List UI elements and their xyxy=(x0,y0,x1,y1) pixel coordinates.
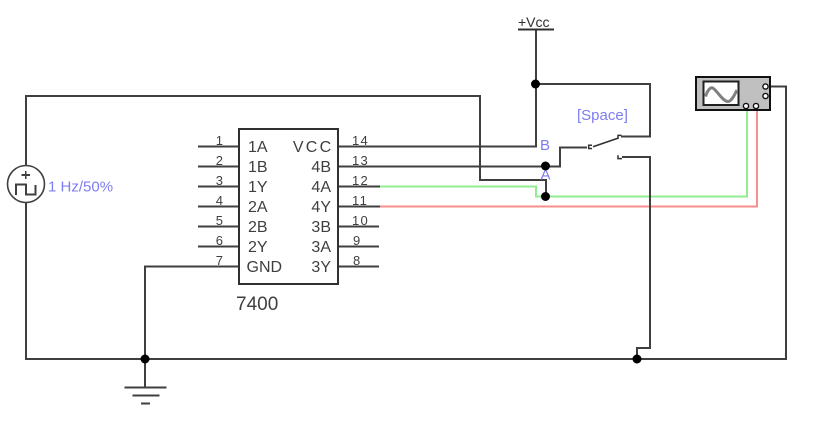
wire short vertical into lower junction xyxy=(545,179,547,197)
wire pin7 vertical to ground junction xyxy=(144,266,146,389)
svg-text:9: 9 xyxy=(353,233,362,248)
svg-text:3: 3 xyxy=(216,173,223,188)
svg-text:2A: 2A xyxy=(248,199,268,216)
clock source pulse waveform xyxy=(16,185,36,196)
wire pin7 horizontal xyxy=(145,266,239,268)
svg-text:4B: 4B xyxy=(311,159,331,176)
oscilloscope terminal bottom B xyxy=(753,103,758,108)
svg-text:3B: 3B xyxy=(311,219,331,236)
pin numbers right xyxy=(352,133,369,268)
oscilloscope terminal right 1 xyxy=(763,84,768,89)
wire pin1 stub xyxy=(198,146,239,148)
ground symbol xyxy=(125,388,167,404)
svg-text:13: 13 xyxy=(352,153,369,168)
IC left pin labels xyxy=(247,139,283,276)
svg-text:B: B xyxy=(540,137,550,154)
svg-text:4Y: 4Y xyxy=(311,199,331,216)
wire clock top vertical xyxy=(25,96,27,165)
svg-text:[Space]: [Space] xyxy=(577,107,628,124)
wire horizontal to node A drop xyxy=(479,179,546,181)
wire jog down to bottom junction xyxy=(636,347,638,359)
svg-text:1 Hz/50%: 1 Hz/50% xyxy=(48,179,113,196)
svg-text:+Vcc: +Vcc xyxy=(518,14,550,30)
wire pin14 horizontal xyxy=(338,146,537,148)
wire switch top throw to right xyxy=(621,136,650,138)
svg-text:4: 4 xyxy=(216,193,223,208)
wire pin5 stub xyxy=(198,226,239,228)
svg-text:7400: 7400 xyxy=(236,294,278,315)
oscilloscope terminal bottom A xyxy=(743,103,748,108)
IC right pin labels xyxy=(293,139,334,276)
svg-text:1A: 1A xyxy=(248,139,268,156)
wire mid vertical x480 xyxy=(479,95,481,180)
wire green channel A xyxy=(379,107,747,198)
oscilloscope terminal right 2 xyxy=(763,93,768,98)
wire green vertical to scope terminal xyxy=(746,107,748,198)
junction ground node xyxy=(141,355,150,364)
svg-text:14: 14 xyxy=(352,133,369,148)
wire pin3 stub xyxy=(198,186,239,188)
wire bottom horizontal xyxy=(25,358,786,360)
pin numbers left xyxy=(216,133,223,268)
wire pin13 horizontal through node A xyxy=(338,166,560,168)
wire Vcc junction to switch top xyxy=(535,83,650,85)
svg-text:2: 2 xyxy=(216,153,223,168)
wire right vertical down xyxy=(785,86,787,361)
wire red channel B xyxy=(379,107,757,208)
wire switch bottom throw to right xyxy=(622,156,650,158)
switch J1 bottom throw contact xyxy=(618,155,622,158)
svg-text:10: 10 xyxy=(352,213,369,228)
oscilloscope sine trace xyxy=(706,88,738,102)
svg-text:1: 1 xyxy=(216,133,223,148)
wire pin2 stub xyxy=(198,166,239,168)
svg-text:8: 8 xyxy=(353,253,362,268)
clock source V1 circle xyxy=(8,166,45,203)
wire clock bottom vertical xyxy=(25,202,27,360)
junction clock/green node xyxy=(541,192,550,201)
IC U1 7400 body xyxy=(239,129,338,284)
svg-text:3A: 3A xyxy=(311,239,331,256)
wire +Vcc vertical xyxy=(535,30,537,84)
oscilloscope XSC1 body xyxy=(696,77,770,110)
wire red pin11 horizontal xyxy=(379,206,757,208)
wire pin10 stub xyxy=(338,226,379,228)
wire pin9 stub xyxy=(338,246,379,248)
svg-text:2Y: 2Y xyxy=(248,239,268,256)
svg-text:11: 11 xyxy=(352,193,368,208)
wire green pin12 horizontal xyxy=(379,186,536,188)
junction bottom right node xyxy=(633,355,642,364)
svg-text:5: 5 xyxy=(216,213,223,228)
wire top horizontal xyxy=(25,95,480,97)
svg-text:12: 12 xyxy=(352,173,369,188)
switch J1 left contact xyxy=(589,145,592,148)
wire switch top throw vertical up xyxy=(649,83,651,138)
wire pin8 stub xyxy=(338,266,379,268)
wire red vertical to scope terminal xyxy=(756,107,758,208)
switch J1 top throw contact xyxy=(618,135,622,138)
wire to switch common contact xyxy=(559,147,587,149)
wire green jog down xyxy=(535,186,537,198)
wire switch bottom throw vertical down xyxy=(649,156,651,348)
svg-text:7: 7 xyxy=(216,253,223,268)
wire pin12 stub xyxy=(338,186,380,188)
junction at Vcc node xyxy=(531,80,540,89)
svg-text:1Y: 1Y xyxy=(248,179,268,196)
wire pin11 stub xyxy=(338,206,380,208)
svg-text:1B: 1B xyxy=(248,159,268,176)
node A junction dot xyxy=(541,162,550,171)
svg-text:4A: 4A xyxy=(311,179,331,196)
oscilloscope screen xyxy=(704,82,739,106)
wire jog left xyxy=(637,347,651,349)
svg-text:2B: 2B xyxy=(248,219,268,236)
wire node A up to switch common xyxy=(559,148,561,168)
wire green horizontal to scope xyxy=(535,196,747,198)
wire Vcc junction down to pin14 row xyxy=(535,83,537,148)
svg-text:6: 6 xyxy=(216,233,223,248)
switch J1 blade xyxy=(593,138,619,147)
wire scope terminal to right xyxy=(770,86,786,88)
wire pin6 stub xyxy=(198,246,239,248)
clock source plus sign xyxy=(22,171,31,179)
svg-text:VCC: VCC xyxy=(293,139,334,156)
svg-text:GND: GND xyxy=(247,259,283,276)
svg-text:3Y: 3Y xyxy=(311,259,331,276)
wire pin4 stub xyxy=(198,206,239,208)
